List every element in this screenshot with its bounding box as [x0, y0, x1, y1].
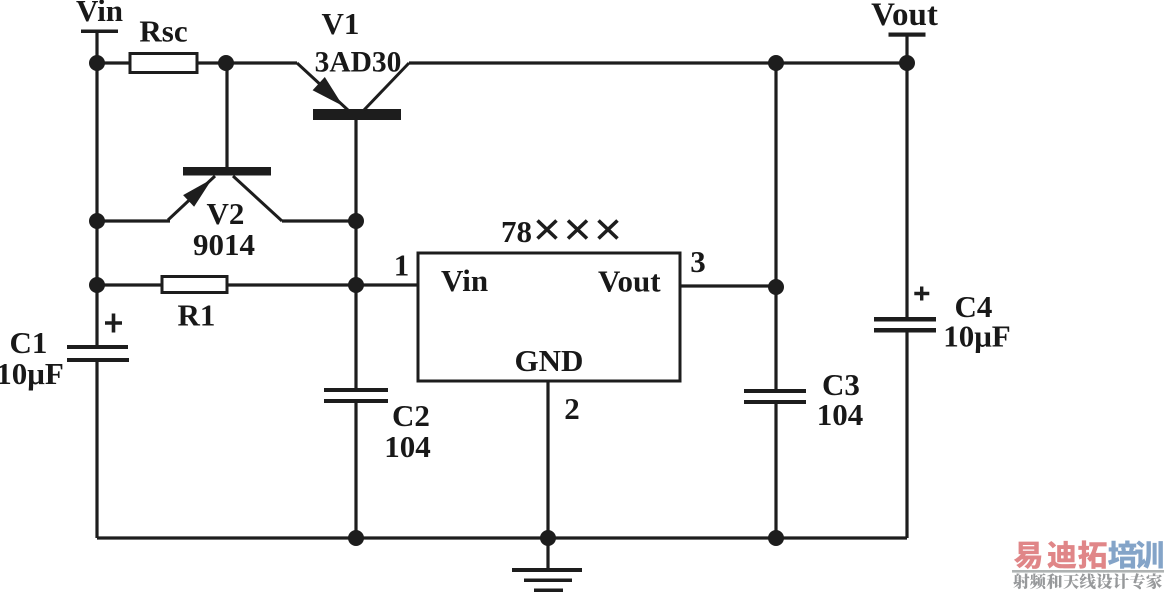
resistor Rsc [130, 14, 197, 73]
transistor V1 3AD30 [297, 6, 409, 120]
svg-text:10μF: 10μF [0, 356, 64, 391]
wire: V1 base vertical down through C2 [354, 120, 357, 539]
svg-text:Vin: Vin [76, 0, 123, 28]
svg-text:V2: V2 [207, 196, 245, 231]
wire: right rail through C3 [774, 63, 777, 539]
node: top rail / Vout rail [899, 55, 915, 71]
svg-text:R1: R1 [178, 298, 216, 333]
svg-text:78: 78 [501, 214, 532, 249]
node: Vin/Rsc [89, 55, 105, 71]
svg-text:V1: V1 [322, 6, 360, 41]
wire: pin 3 to right rail [680, 284, 776, 287]
wire: V2 base lead [225, 63, 228, 167]
Vin terminal [76, 0, 123, 33]
wire: IC pin 2 lead to ground [546, 381, 549, 568]
wire: Vout rail through C4 [905, 34, 908, 538]
node: pin3 / right rail [768, 279, 784, 295]
node: left rail / R1 [89, 277, 105, 293]
wire: V2 collector to centre rail [282, 219, 356, 222]
node: centre rail / R1 [348, 277, 364, 293]
svg-text:2: 2 [564, 391, 580, 426]
capacitor C1 10uF [0, 314, 129, 392]
svg-text:3: 3 [690, 244, 706, 279]
svg-text:C2: C2 [392, 398, 430, 433]
resistor R1 [162, 277, 227, 333]
capacitor C3 104 [744, 367, 863, 432]
wire: V2 emitter to left rail [97, 219, 170, 222]
svg-text:Rsc: Rsc [139, 14, 187, 49]
svg-text:Vin: Vin [441, 263, 488, 298]
node: left rail / V2 emitter [89, 213, 105, 229]
node: bottom rail / ground [540, 530, 556, 546]
capacitor C2 104 [324, 388, 431, 464]
Vout terminal [871, 0, 938, 37]
node: bottom rail / centre rail [348, 530, 364, 546]
node: bottom rail / right rail [768, 530, 784, 546]
watermark logo text 易迪拓培训 [1014, 540, 1163, 569]
svg-text:104: 104 [817, 397, 864, 432]
watermark tagline 射频和天线设计专家 [1013, 573, 1162, 589]
wire: top rail right segment (V1 collector to Vout) [409, 61, 907, 64]
svg-text:1: 1 [394, 248, 410, 283]
wire: bottom rail [97, 536, 907, 539]
watermark underline [1012, 570, 1164, 573]
capacitor C4 10uF [874, 287, 1011, 354]
svg-text:Vout: Vout [598, 264, 661, 299]
svg-text:Vout: Vout [871, 0, 938, 33]
svg-text:3AD30: 3AD30 [315, 47, 402, 79]
svg-text:104: 104 [384, 429, 431, 464]
wire: left rail (Vin down to bottom) [95, 31, 98, 538]
ground [512, 568, 582, 592]
IC U1 78xxx [394, 214, 706, 426]
node: centre rail / V2 collector [348, 213, 364, 229]
wire: R1 row / pin 1 [97, 283, 418, 286]
transistor V2 9014 [168, 167, 282, 262]
xxx crosses [538, 221, 618, 239]
svg-text:GND: GND [515, 343, 584, 378]
node: top rail / right rail [768, 55, 784, 71]
svg-text:10μF: 10μF [943, 319, 1011, 354]
svg-text:9014: 9014 [193, 227, 255, 262]
wire: top rail left segment [97, 61, 297, 64]
svg-text:C1: C1 [10, 325, 48, 360]
node: Rsc/V2 base [218, 55, 234, 71]
